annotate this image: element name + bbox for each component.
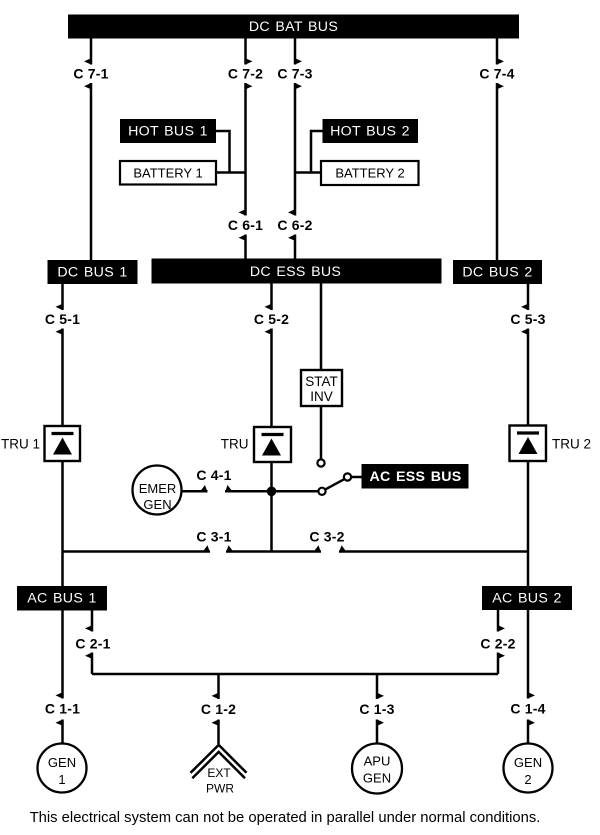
svg-text:C 1-3: C 1-3 — [359, 701, 394, 717]
contactor C7-3 — [277, 39, 312, 216]
wire BATTERY 1 to C7-2 wire — [216, 171, 246, 174]
svg-text:EXT: EXT — [207, 766, 231, 780]
AC tie line right segment — [339, 550, 528, 553]
node junction dot — [267, 487, 277, 497]
svg-text:BATTERY 1: BATTERY 1 — [133, 166, 202, 181]
external power EXT PWR — [191, 745, 247, 796]
svg-text:C 1-2: C 1-2 — [201, 701, 236, 717]
svg-text:C 2-1: C 2-1 — [75, 636, 110, 652]
svg-text:C 6-2: C 6-2 — [277, 217, 312, 233]
svg-text:C 6-1: C 6-1 — [228, 217, 263, 233]
box BATTERY 2 — [321, 161, 419, 185]
svg-text:GEN: GEN — [363, 771, 391, 786]
switch contact circle (node side) — [318, 488, 325, 495]
svg-text:HOT BUS 1: HOT BUS 1 — [128, 124, 208, 140]
svg-text:PWR: PWR — [206, 782, 234, 796]
box STAT INV — [301, 370, 342, 406]
svg-text:GEN: GEN — [48, 755, 76, 770]
svg-text:1: 1 — [58, 772, 65, 787]
box BATTERY 1 — [120, 161, 216, 185]
svg-text:C 3-1: C 3-1 — [196, 529, 231, 545]
box HOT BUS 1 — [120, 119, 216, 143]
svg-text:C 7-2: C 7-2 — [228, 66, 263, 82]
svg-text:2: 2 — [524, 772, 531, 787]
svg-text:TRU 1: TRU 1 — [1, 437, 40, 452]
contactor C6-1 — [228, 209, 263, 258]
wire BATTERY 2 to C7-3 wire — [295, 171, 321, 174]
wire EMER GEN to C4-1 — [182, 490, 208, 493]
contactor C2-1 — [75, 611, 110, 675]
svg-text:HOT BUS 2: HOT BUS 2 — [330, 124, 410, 140]
contactor C4-1 — [196, 467, 318, 492]
svg-text:AC BUS 2: AC BUS 2 — [492, 591, 561, 607]
svg-text:DC BAT BUS: DC BAT BUS — [249, 19, 338, 35]
svg-text:C 5-2: C 5-2 — [254, 311, 289, 327]
svg-text:C 1-1: C 1-1 — [45, 701, 80, 717]
svg-text:DC BUS 1: DC BUS 1 — [57, 265, 127, 281]
AC collector line — [92, 673, 498, 676]
wire STAT INV to switch terminal — [320, 406, 323, 459]
contactor C7-2 — [228, 39, 263, 216]
svg-text:C 2-2: C 2-2 — [480, 636, 515, 652]
switch blade — [326, 479, 344, 489]
switch contact circle (AC ESS side) — [344, 473, 351, 480]
svg-text:AC ESS BUS: AC ESS BUS — [369, 469, 461, 485]
wire switch to AC ESS BUS — [351, 476, 361, 479]
contactor C3-2 — [309, 529, 347, 553]
contactor C7-1 — [73, 39, 108, 261]
TRU 2 — [510, 426, 592, 462]
svg-text:C 7-1: C 7-1 — [73, 66, 108, 82]
svg-text:GEN: GEN — [514, 755, 542, 770]
bus AC BUS 1 — [17, 586, 107, 611]
svg-text:C 4-1: C 4-1 — [196, 467, 231, 483]
bus DC ESS BUS — [152, 259, 442, 284]
svg-text:DC ESS BUS: DC ESS BUS — [250, 264, 341, 280]
contactor C6-2 — [277, 209, 312, 258]
svg-text:C 7-4: C 7-4 — [479, 66, 514, 82]
svg-text:DC BUS 2: DC BUS 2 — [462, 265, 532, 281]
bus DC BAT BUS — [68, 15, 519, 39]
contactor C1-4 — [510, 610, 545, 744]
bus DC BUS 1 — [48, 260, 138, 284]
bus AC ESS BUS — [362, 464, 469, 489]
svg-text:STAT: STAT — [305, 374, 338, 389]
svg-text:BATTERY 2: BATTERY 2 — [335, 166, 404, 181]
wire TRU1 down through AC BUS 1 level — [61, 461, 64, 586]
box HOT BUS 2 — [323, 119, 419, 143]
svg-text:TRU 2: TRU 2 — [552, 437, 591, 452]
svg-text:APU: APU — [364, 754, 391, 769]
generator GEN 2 — [504, 744, 553, 793]
contactor C1-2 — [201, 674, 236, 744]
contactor C1-1 — [45, 611, 80, 744]
svg-text:AC BUS 1: AC BUS 1 — [27, 591, 96, 607]
svg-text:This electrical system can not: This electrical system can not be operat… — [30, 810, 541, 826]
TRU 1 — [1, 426, 80, 461]
svg-text:GEN: GEN — [143, 497, 171, 512]
TRU center — [221, 427, 291, 462]
AC tie line left segment — [63, 550, 211, 553]
wire HOT BUS 2 to battery wire — [311, 131, 323, 173]
svg-text:C 3-2: C 3-2 — [309, 529, 344, 545]
contactor C5-3 — [510, 284, 545, 426]
wire TRU center down to AC tie line — [270, 462, 273, 552]
contactor C2-2 — [480, 610, 515, 674]
wire HOT BUS 1 to battery wire — [216, 131, 230, 173]
AC tie line middle segment — [226, 550, 321, 553]
svg-text:EMER: EMER — [139, 481, 177, 496]
contactor C3-1 — [196, 529, 234, 553]
generator GEN 1 — [38, 744, 87, 793]
svg-text:TRU: TRU — [221, 437, 249, 452]
bus DC BUS 2 — [453, 260, 542, 284]
bus AC BUS 2 — [482, 586, 572, 610]
svg-text:C 1-4: C 1-4 — [510, 701, 545, 717]
svg-text:C 5-3: C 5-3 — [510, 311, 545, 327]
contactor C5-1 — [45, 284, 80, 426]
switch terminal circle (STAT INV side) — [317, 459, 324, 466]
generator APU GEN — [352, 744, 402, 794]
contactor C5-2 — [254, 284, 289, 428]
wire DC ESS BUS to STAT INV — [320, 284, 323, 371]
wire TRU2 down — [527, 461, 530, 586]
generator EMER GEN — [133, 466, 182, 515]
svg-text:INV: INV — [310, 389, 333, 404]
contactor C1-3 — [359, 674, 394, 744]
svg-text:C 5-1: C 5-1 — [45, 311, 80, 327]
svg-text:C 7-3: C 7-3 — [277, 66, 312, 82]
contactor C7-4 — [479, 39, 514, 261]
